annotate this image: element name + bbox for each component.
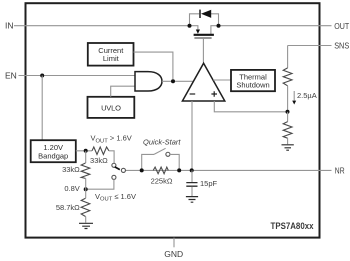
svg-text:SNS: SNS bbox=[334, 41, 349, 51]
svg-text:15pF: 15pF bbox=[200, 179, 218, 188]
svg-text:GND: GND bbox=[164, 249, 183, 259]
svg-text:33kΩ: 33kΩ bbox=[62, 165, 80, 174]
svg-text:0.8V: 0.8V bbox=[64, 184, 79, 193]
svg-text:EN: EN bbox=[5, 71, 17, 81]
svg-text:UVLO: UVLO bbox=[101, 103, 121, 112]
svg-text:58.7kΩ: 58.7kΩ bbox=[56, 203, 80, 212]
svg-text:NR: NR bbox=[335, 166, 345, 176]
svg-text:Quick-Start: Quick-Start bbox=[143, 138, 181, 147]
svg-text:Shutdown: Shutdown bbox=[236, 81, 269, 90]
svg-text:OUT: OUT bbox=[334, 21, 349, 31]
svg-text:Bandgap: Bandgap bbox=[38, 151, 68, 160]
svg-text:IN: IN bbox=[5, 21, 14, 31]
svg-text:2.5µA: 2.5µA bbox=[297, 91, 317, 100]
svg-text:Limit: Limit bbox=[103, 54, 120, 63]
svg-text:225kΩ: 225kΩ bbox=[151, 176, 173, 185]
svg-text:TPS7A80xx: TPS7A80xx bbox=[271, 221, 315, 232]
svg-text:33kΩ: 33kΩ bbox=[90, 156, 108, 165]
